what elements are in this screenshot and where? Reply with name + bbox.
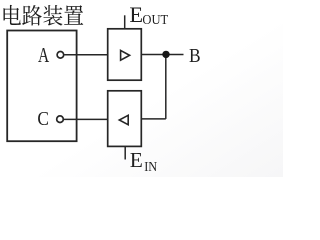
svg-text:E: E [130, 148, 143, 172]
svg-text:B: B [189, 45, 201, 67]
svg-text:E: E [129, 2, 143, 27]
wire: node B down to corner [165, 55, 167, 119]
wire: terminal A to buffer U1 input [64, 54, 107, 56]
svg-text:OUT: OUT [142, 12, 168, 27]
buffer U1 (top box) [108, 29, 142, 80]
svg-text:IN: IN [144, 159, 157, 174]
svg-text:A: A [38, 43, 50, 67]
lead: E_OUT terminal of U1 [124, 15, 126, 28]
node B (junction dot) [162, 51, 169, 58]
wire: terminal C to buffer U2 output [64, 118, 108, 120]
label 电路装置 (circuit device title) [4, 5, 84, 26]
box: circuit device enclosure [7, 31, 76, 142]
buffer U1 triangle (points right) [121, 50, 130, 60]
buffer U2 (bottom box) [108, 91, 142, 147]
svg-text:C: C [37, 108, 49, 130]
lead: E_IN terminal of U2 [124, 146, 126, 159]
terminal A (open circle) [57, 52, 64, 59]
terminal C (open circle) [57, 116, 64, 123]
wire: buffer U1 output to node B [142, 54, 184, 56]
buffer U2 triangle (points left) [119, 115, 128, 124]
wire: corner to buffer U2 input (right side) [142, 118, 166, 120]
